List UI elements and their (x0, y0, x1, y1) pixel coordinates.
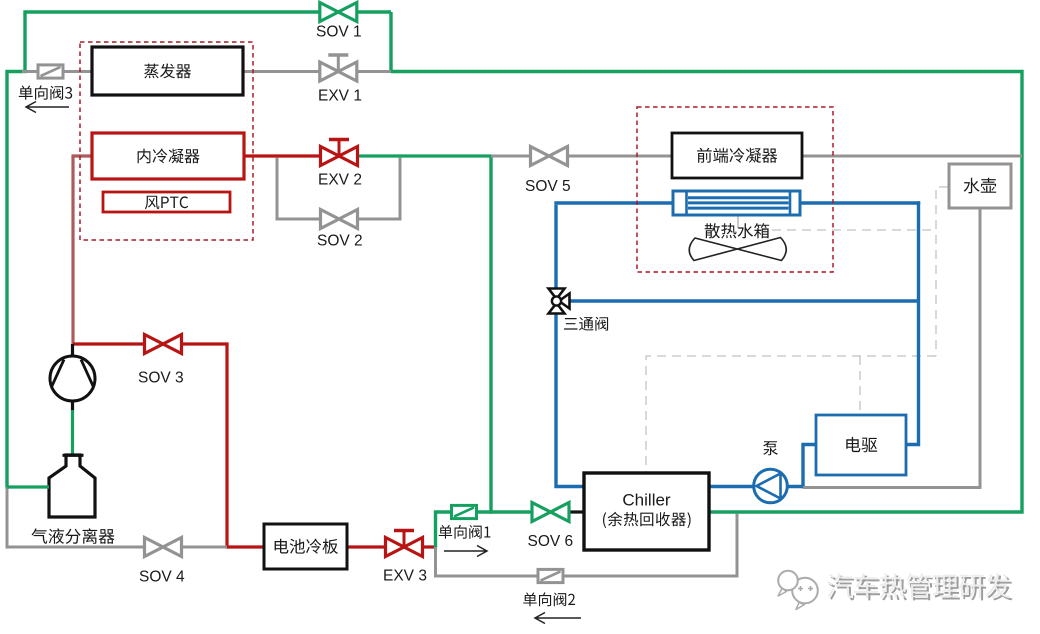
wire gray left vertical separator to SOV4 line (6, 487, 9, 549)
wire green EXV3 corner up to check-valve-1 line (436, 512, 453, 549)
air PTC box 风PTC (103, 192, 230, 212)
wire blue right vertical down to e-drive (907, 201, 919, 444)
valve SOV 4 (139, 538, 185, 586)
wire gray evaporator to EXV1 to green junction (242, 70, 391, 73)
dashed gray kettle drop (936, 187, 948, 356)
check valve 单向阀1 (439, 505, 491, 538)
dashed gray leader radiator label to kettle net (757, 229, 937, 231)
dashed gray horizontal to Chiller drop (646, 356, 936, 472)
wire red down to battery plate line (225, 344, 228, 549)
svg-text:SOV 1: SOV 1 (316, 24, 362, 41)
wire red SOV3 line (73, 342, 229, 345)
wire blue radiator left down through 3-way valve to Chiller (556, 205, 584, 487)
inner condenser box 内冷凝器 (92, 133, 244, 179)
valve SOV 5 (525, 147, 571, 196)
valve SOV 1 (316, 3, 362, 41)
svg-text:EXV 1: EXV 1 (318, 88, 362, 105)
wire green left drop from SOV1 line (23, 10, 26, 71)
e-drive box 电驱 (816, 415, 906, 475)
pump 泵 (754, 441, 788, 503)
svg-text:SOV 6: SOV 6 (528, 533, 574, 550)
wire green compressor to separator (71, 410, 74, 456)
wire blue e-drive left to pump outlet (803, 445, 815, 489)
wire red EXV3 out (420, 545, 437, 548)
valve SOV 2 (317, 210, 363, 250)
wire gray check-valve-2 loop (436, 514, 738, 576)
kettle box 水壶 (949, 164, 1011, 208)
logo wechat icon (778, 571, 818, 610)
wire gray SOV2 bypass loop (277, 158, 400, 219)
wire black SOV6 to Chiller stub (568, 510, 584, 513)
valve SOV 6 (528, 503, 574, 551)
wire gray front condenser to right green line (801, 155, 1022, 158)
dashed red HVAC group box (80, 42, 253, 240)
wire blue radiator right horizontal (799, 201, 920, 204)
wire green vertical junction down to check-valve-1 line (489, 156, 492, 514)
wire green main: top across, right side down, bottom to Chiller (391, 72, 1022, 513)
fan symbol (689, 238, 786, 261)
svg-text:SOV 5: SOV 5 (525, 178, 571, 195)
wire gray SOV5 line from junction to front condenser (491, 155, 673, 158)
compressor (50, 344, 95, 411)
check valve 单向阀3 flow arrow (26, 102, 69, 113)
battery cold plate box 电池冷板 (264, 524, 347, 569)
svg-text:SOV 2: SOV 2 (317, 233, 363, 250)
three-way valve 三通阀 (549, 289, 609, 331)
wire green check-valve-1 to SOV6 (475, 510, 533, 513)
wire brown inner-condenser left down to compressor (73, 156, 93, 346)
check valve 单向阀1 flow arrow (444, 546, 487, 557)
svg-text:Chiller: Chiller (622, 491, 671, 510)
dashed gray branch to e-drive (859, 356, 861, 414)
wire red inner-condenser to EXV2 (243, 154, 322, 157)
svg-text:SOV 4: SOV 4 (139, 569, 185, 586)
valve SOV 3 (138, 335, 184, 387)
wire green to separator left (7, 485, 49, 488)
wire gray SOV4 line (7, 546, 227, 549)
wire green top-left corner to bottom (7, 72, 27, 489)
leader line radiator label (737, 214, 739, 228)
wire blue pump to corner (784, 485, 805, 488)
svg-text:EXV 2: EXV 2 (318, 172, 362, 189)
check valve 单向阀2 flow arrow (535, 613, 581, 624)
wire red into battery cold plate (227, 545, 264, 548)
svg-text:EXV 3: EXV 3 (383, 568, 427, 585)
radiator label 散热水箱 (705, 223, 769, 238)
logo text 汽车热管理研发 (827, 573, 1013, 600)
check valve 单向阀3 (19, 65, 72, 100)
wire blue Chiller right to pump (709, 485, 757, 488)
wire gray pump outlet to kettle riser (803, 207, 980, 488)
separator label 气液分离器 (32, 528, 115, 544)
evaporator box 蒸发器 (92, 47, 243, 95)
wire green SOV1 top line (25, 10, 391, 13)
radiator 散热水箱 (673, 191, 800, 215)
wire red battery plate to EXV3 (347, 545, 388, 548)
wire blue radiator left horizontal (554, 201, 674, 204)
valve EXV 2 (318, 139, 362, 189)
svg-text:SOV 3: SOV 3 (138, 370, 184, 387)
valve EXV 1 (318, 55, 362, 105)
wire green right drop from SOV1 line to EXV1 line (389, 12, 392, 72)
front condenser box 前端冷凝器 (672, 133, 802, 178)
dashed red front-end group box (637, 107, 833, 272)
wire green EXV2 out to junction (356, 154, 493, 157)
check valve 单向阀2 (523, 569, 575, 606)
valve EXV 3 (383, 530, 427, 585)
wire blue three-way valve to right vertical (568, 299, 919, 302)
gas-liquid separator 气液分离器 (49, 455, 95, 517)
wire gray check-valve-3 line (22, 70, 93, 73)
Chiller box (584, 473, 709, 550)
